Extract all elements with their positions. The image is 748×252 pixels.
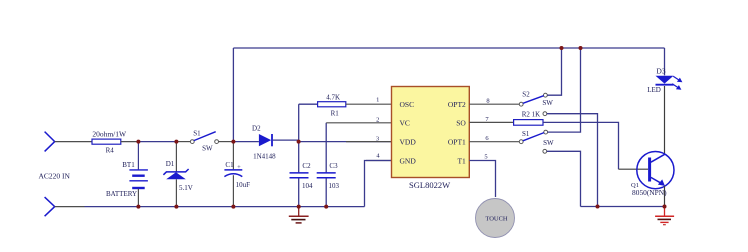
- wire LED to Q1 collector: [664, 86, 666, 154]
- svg-text:BATTERY: BATTERY: [106, 190, 137, 198]
- node dot supply / battery: [136, 140, 140, 144]
- svg-text:SW: SW: [202, 145, 213, 153]
- node dot ground rail / battery: [136, 205, 140, 209]
- svg-text:10uF: 10uF: [236, 181, 251, 189]
- wire S3 throw A up to rail: [548, 48, 581, 132]
- svg-text:4.7K: 4.7K: [326, 94, 340, 102]
- wire S2 throw B down to ground rail: [547, 114, 598, 207]
- svg-text:OPT2: OPT2: [448, 100, 466, 109]
- diode D1 zener 5.1V: [163, 142, 188, 207]
- wire pin7 to R2: [469, 121, 513, 123]
- LED D3: [656, 48, 683, 90]
- svg-text:3: 3: [376, 135, 379, 142]
- svg-text:5: 5: [484, 153, 487, 160]
- svg-text:S2: S2: [522, 90, 530, 98]
- node dot top rail / S3: [579, 46, 583, 50]
- svg-text:S1: S1: [193, 130, 201, 138]
- node dot supply / R1 C2: [297, 140, 301, 144]
- node dot right rail / S2 throw B: [596, 205, 600, 209]
- wire ground rail up to IC GND pin 4: [365, 161, 392, 207]
- svg-text:8050(NPN): 8050(NPN): [632, 188, 667, 197]
- svg-text:1: 1: [376, 97, 379, 104]
- svg-text:C1: C1: [225, 161, 234, 169]
- transistor Q1 8050 NPN: [637, 152, 674, 207]
- svg-text:OPT1: OPT1: [448, 138, 466, 147]
- svg-text:104: 104: [302, 182, 313, 190]
- capacitor C3 103: [317, 123, 336, 207]
- wire pin6 to S3: [469, 141, 519, 143]
- switch S3: [519, 130, 547, 153]
- node AC input terminal 2: [45, 197, 55, 216]
- node dot ground rail / C2 gnd: [297, 205, 301, 209]
- wire top rail VCC net: [233, 47, 664, 49]
- wire pin4 stub: [366, 160, 392, 162]
- wire S3 throw B down to right ground rail: [547, 151, 581, 206]
- battery BT1: [129, 142, 148, 207]
- svg-text:BT1: BT1: [122, 161, 135, 169]
- resistor R4 body: [92, 139, 121, 144]
- svg-text:20ohm/1W: 20ohm/1W: [92, 130, 127, 139]
- diode D2 1N4148: [259, 134, 299, 146]
- svg-text:SW: SW: [543, 139, 554, 147]
- svg-text:C3: C3: [329, 162, 338, 170]
- resistor R1 4.7K: [299, 102, 392, 107]
- svg-text:R2 1K: R2 1K: [522, 111, 540, 119]
- node dot ground rail / C1: [231, 205, 235, 209]
- wire supply node to IC VDD pin 3: [299, 141, 392, 143]
- svg-text:103: 103: [329, 182, 340, 190]
- svg-text:8: 8: [486, 98, 489, 105]
- svg-text:D1: D1: [166, 160, 175, 168]
- svg-text:+: +: [237, 164, 241, 171]
- wire R4 to battery node: [121, 141, 139, 143]
- wire R2 to Q1 base: [619, 168, 649, 170]
- svg-text:S1: S1: [522, 130, 530, 138]
- svg-text:2: 2: [376, 116, 379, 123]
- wire pin3 stub: [346, 141, 392, 143]
- svg-text:D2: D2: [252, 125, 261, 133]
- node dot supply / D1: [174, 140, 178, 144]
- node dot right rail / Q1 emitter gnd: [663, 205, 667, 209]
- node dot ground rail / C3: [324, 205, 328, 209]
- wire bottom ground rail: [55, 206, 85, 208]
- wire S1 to C1 node: [219, 141, 234, 143]
- wire R1 down to supply and C2: [298, 104, 300, 172]
- wire left vertical from top rail to supply node: [232, 48, 234, 142]
- wire terminal1 to R4: [55, 141, 92, 143]
- svg-text:GND: GND: [400, 156, 417, 165]
- op-amp U1 SGL8022W IC body: [392, 87, 470, 178]
- wire C1 node to D2: [233, 141, 259, 143]
- wire pin8 to S2: [469, 103, 519, 105]
- wire battery node to D1 node: [138, 141, 176, 143]
- svg-text:C2: C2: [302, 162, 311, 170]
- svg-text:OSC: OSC: [400, 100, 415, 109]
- node dot ground rail / D1: [174, 205, 178, 209]
- svg-text:SGL8022W: SGL8022W: [409, 180, 450, 190]
- node dot top rail / S2: [560, 46, 564, 50]
- switch S1 (power switch): [190, 132, 218, 144]
- svg-text:SO: SO: [456, 119, 466, 128]
- svg-text:R1: R1: [331, 110, 340, 118]
- wire right bottom ground rail: [581, 206, 665, 208]
- svg-text:D3: D3: [656, 67, 665, 76]
- svg-text:VDD: VDD: [400, 138, 417, 147]
- svg-text:5.1V: 5.1V: [179, 184, 193, 192]
- wire C3 to IC VC pin 2: [326, 122, 391, 124]
- resistor R2 1K: [514, 120, 619, 170]
- node dot supply / C1: [231, 140, 235, 144]
- svg-text:LED: LED: [647, 86, 661, 94]
- wire D1 node to switch S1: [176, 141, 190, 143]
- ground (right, under Q1 emitter): [655, 207, 674, 225]
- svg-text:T1: T1: [457, 156, 466, 165]
- capacitor C2 104: [290, 173, 309, 207]
- svg-text:SW: SW: [542, 99, 553, 107]
- svg-text:R4: R4: [106, 147, 115, 155]
- switch S2: [519, 93, 547, 115]
- touch pad TOUCH: [476, 199, 515, 238]
- svg-text:1N4148: 1N4148: [253, 152, 276, 160]
- wire pin5 T1 to touch pad: [469, 161, 495, 198]
- ground (left, under C2 node): [289, 207, 309, 223]
- svg-text:VC: VC: [400, 119, 410, 128]
- wire S2 throw A up to rail: [547, 48, 561, 95]
- svg-text:AC220 IN: AC220 IN: [38, 172, 70, 181]
- capacitor C1 10uF: [224, 142, 242, 207]
- svg-text:TOUCH: TOUCH: [485, 215, 508, 222]
- node AC input terminal 1: [45, 132, 55, 152]
